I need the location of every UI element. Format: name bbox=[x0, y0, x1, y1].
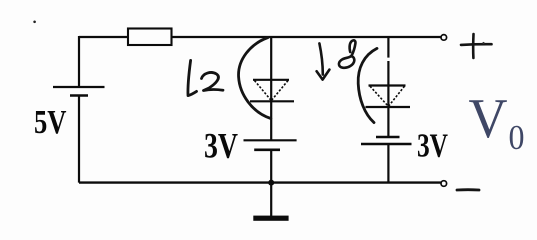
annotation arc around diode D1 bbox=[239, 38, 271, 119]
diode D1 anode bar bbox=[253, 79, 289, 81]
battery 5V bottom plate bbox=[70, 94, 88, 97]
svg-text:V: V bbox=[469, 88, 508, 150]
diode D2 anode bar bbox=[369, 84, 406, 86]
annotation arc around diode D2 bbox=[358, 48, 377, 122]
diode D1 triangle right edge bbox=[271, 81, 288, 101]
annotation delta handwritten bbox=[339, 40, 356, 68]
wire below battery 3V no.2 bbox=[387, 144, 389, 183]
battery 3V no.2 bottom long plate bbox=[361, 143, 412, 145]
top wire bbox=[79, 36, 442, 38]
diode D2 triangle right edge bbox=[388, 86, 404, 106]
diode D2 cathode bar bbox=[366, 106, 411, 108]
stray dot top-left bbox=[33, 21, 36, 24]
battery 3V no.2 top short plate bbox=[376, 136, 400, 139]
stray dot near plus bbox=[482, 42, 484, 44]
ground stem wire bbox=[270, 183, 272, 216]
bottom wire rail bbox=[79, 181, 442, 183]
ground bar bbox=[253, 216, 288, 221]
wire branch 2 vertical segment to diode bbox=[387, 61, 389, 137]
bottom output terminal bbox=[441, 181, 447, 187]
svg-text:3V: 3V bbox=[204, 126, 238, 166]
annotation arrow current I8 bbox=[317, 43, 330, 79]
svg-text:0: 0 bbox=[509, 118, 525, 157]
wire below 5V battery down to bottom rail bbox=[78, 96, 80, 183]
diode D1 cathode bar bbox=[250, 100, 294, 102]
battery 3V no.1 bottom plate bbox=[254, 149, 280, 152]
resistor R1 bbox=[128, 29, 172, 46]
battery 3V no.1 top plate bbox=[244, 139, 297, 141]
annotation numeral 2 handwritten bbox=[202, 72, 224, 90]
diode D2 triangle left edge bbox=[370, 86, 388, 106]
battery 5V top plate bbox=[53, 86, 105, 88]
junction node dot bbox=[268, 180, 274, 186]
svg-text:3V: 3V bbox=[417, 128, 448, 165]
wire branch 1 vertical bbox=[270, 37, 272, 140]
wire branch 2 vertical upper segment bbox=[387, 37, 389, 58]
annotation arrow current I2 bbox=[188, 60, 197, 95]
minus sign handwritten bbox=[457, 188, 479, 191]
plus sign handwritten bbox=[461, 34, 492, 58]
top output terminal bbox=[441, 35, 447, 41]
diode D1 triangle left edge bbox=[255, 81, 272, 101]
label V0 bbox=[469, 88, 525, 157]
svg-text:5V: 5V bbox=[34, 104, 67, 141]
wire below battery 3V no.1 bbox=[270, 150, 272, 183]
wire left vertical from top corner to 5V battery bbox=[78, 36, 80, 87]
